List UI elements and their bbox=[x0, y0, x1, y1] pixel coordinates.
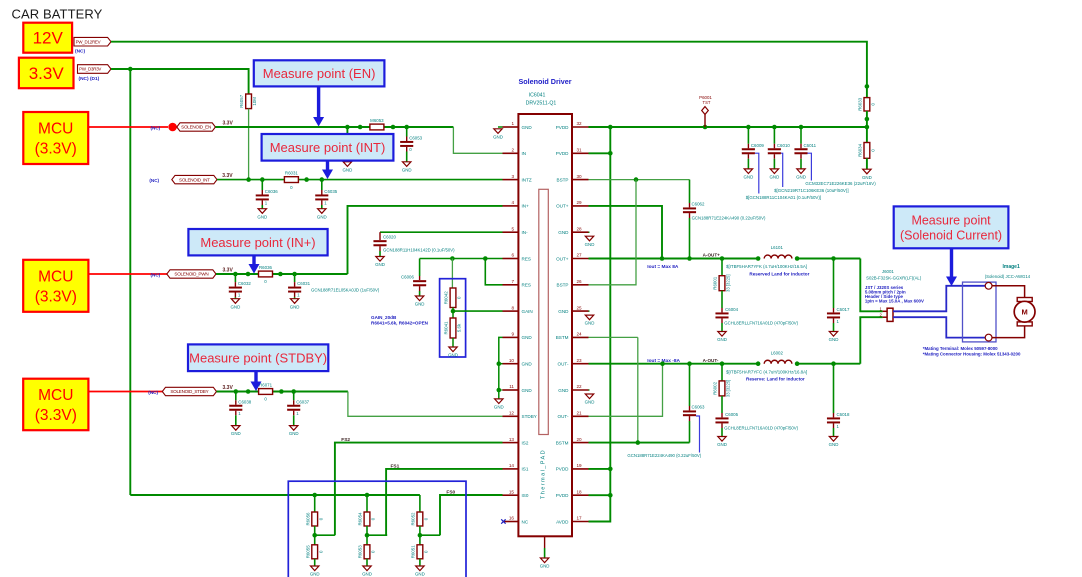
junction 3.3V rail at R6054 bbox=[365, 493, 370, 512]
refdes J6001 bbox=[882, 269, 895, 274]
svg-text:(NC) (D1): (NC) (D1) bbox=[79, 76, 100, 82]
svg-text:GND: GND bbox=[744, 175, 754, 180]
ground below C6006 bbox=[415, 296, 425, 307]
wire FS2 net bbox=[335, 443, 503, 536]
svg-text:DRV2511-Q1: DRV2511-Q1 bbox=[526, 101, 557, 107]
wire R6051 to ground bbox=[419, 559, 421, 566]
svg-text:Thermal_PAD: Thermal_PAD bbox=[540, 449, 546, 499]
wire R6042 to R6041 bbox=[452, 308, 454, 319]
svg-text:3.3V: 3.3V bbox=[223, 268, 234, 274]
wire STDBY line bbox=[217, 391, 348, 393]
wire R6054 to R6053 bbox=[366, 526, 368, 545]
svg-text:SOLENOID_EN: SOLENOID_EN bbox=[181, 125, 211, 130]
note reserved land top bbox=[749, 271, 809, 276]
capacitor C6031 bbox=[288, 274, 310, 309]
svg-text:GND: GND bbox=[717, 442, 727, 447]
svg-text:GND: GND bbox=[585, 321, 595, 326]
wire 3.3V rail bottom horizontal bbox=[130, 494, 420, 496]
ground pin25 bbox=[585, 311, 595, 326]
value C6009 bbox=[746, 195, 821, 200]
svg-text:33 [3225]: 33 [3225] bbox=[726, 274, 731, 291]
svg-text:12: 12 bbox=[509, 411, 515, 416]
callout line C6063 bbox=[696, 416, 700, 453]
junction FS tap at R6052 bbox=[418, 533, 423, 538]
svg-text:C6053: C6053 bbox=[409, 136, 422, 141]
svg-text:C6038: C6038 bbox=[238, 399, 251, 404]
wire R6053 to ground bbox=[366, 559, 368, 566]
svg-text:3.3V: 3.3V bbox=[223, 121, 234, 127]
capacitor C6006 bbox=[401, 275, 426, 297]
svg-text:C6036: C6036 bbox=[265, 189, 278, 194]
block 12V battery bbox=[23, 23, 72, 53]
svg-text:GCN188R11H104K142D (0.1uF/50V): GCN188R11H104K142D (0.1uF/50V) bbox=[383, 248, 455, 253]
thermal pad rect bbox=[539, 189, 549, 434]
callout Measure point (Solenoid Current) bbox=[894, 206, 1009, 248]
note mating terminal bbox=[923, 346, 1021, 357]
note reserved land bottom bbox=[746, 377, 805, 382]
svg-text:(Solenoid Current): (Solenoid Current) bbox=[900, 228, 1002, 242]
svg-text:33 [3225]: 33 [3225] bbox=[726, 380, 731, 397]
wire A-OUT+ to connector bbox=[860, 259, 882, 312]
junction EN dot d bbox=[404, 125, 409, 130]
part number DRV2511-Q1 bbox=[526, 101, 557, 107]
ground below R6053 bbox=[362, 566, 372, 577]
svg-text:R6042: R6042 bbox=[444, 291, 449, 304]
pin 25 GND (right) bbox=[558, 305, 588, 314]
svg-text:32: 32 bbox=[577, 121, 583, 126]
net flag SOLENOID_PWN bbox=[167, 270, 216, 278]
svg-text:A-OUT+: A-OUT+ bbox=[703, 253, 721, 258]
svg-text:R6036: R6036 bbox=[259, 265, 272, 270]
wire A-OUT- line bbox=[589, 363, 759, 365]
resistor R6051 bbox=[411, 545, 429, 559]
svg-text:SOLENOID_INT: SOLENOID_INT bbox=[179, 177, 210, 182]
junction PWN dot C6032 bbox=[233, 272, 238, 277]
junction pin11 dot bbox=[497, 388, 502, 393]
svg-text:C6063: C6063 bbox=[692, 405, 705, 410]
svg-text:R6041: R6041 bbox=[444, 321, 449, 334]
label (NC) INT bbox=[149, 178, 159, 183]
svg-text:GND: GND bbox=[717, 337, 727, 342]
svg-text:31: 31 bbox=[577, 148, 583, 153]
svg-text:R6041=5.6k, R6042=OPEN: R6041=5.6k, R6042=OPEN bbox=[371, 321, 429, 326]
wire MCU2 to PWN testpoint bbox=[88, 273, 168, 275]
ground below C6005 bbox=[717, 437, 727, 448]
capacitor C6020 bbox=[374, 232, 456, 256]
ground EN stub bbox=[343, 162, 353, 173]
callout Measure point (STDBY) bbox=[188, 344, 328, 371]
ground below R6055 bbox=[310, 566, 320, 577]
svg-text:M: M bbox=[1021, 308, 1027, 317]
callout Measure point (INT) bbox=[262, 134, 394, 161]
wire pin18 PVDD bbox=[589, 494, 611, 496]
block MCU1 (3.3V) bbox=[23, 112, 88, 164]
junction STDBY dot C6037 bbox=[291, 389, 296, 394]
ground below R6034 bbox=[862, 169, 872, 180]
svg-text:SOLENOID_PWN: SOLENOID_PWN bbox=[174, 272, 208, 277]
resistor R6054 bbox=[358, 512, 376, 526]
wire pin30 BSTP bbox=[589, 179, 690, 181]
pin 3 INTZ (left) bbox=[503, 174, 532, 183]
svg-text:(NC): (NC) bbox=[151, 273, 161, 278]
wire BSTP to pin26 bbox=[589, 180, 637, 285]
svg-text:(NC): (NC) bbox=[151, 126, 161, 131]
svg-text:Iout = Max 8A: Iout = Max 8A bbox=[647, 264, 679, 270]
svg-text:18: 18 bbox=[577, 489, 583, 494]
ground pins 9-11 bbox=[494, 399, 504, 410]
svg-text:21: 21 bbox=[577, 411, 583, 416]
svg-text:PVDD: PVDD bbox=[556, 467, 569, 472]
svg-text:3.3V: 3.3V bbox=[29, 64, 65, 83]
svg-text:C6011: C6011 bbox=[804, 143, 817, 148]
svg-text:(3.3V): (3.3V) bbox=[35, 141, 77, 158]
svg-text:GCHL8ERLLFN716A01D (470pF/50V): GCHL8ERLLFN716A01D (470pF/50V) bbox=[724, 321, 798, 326]
svg-text:FS0: FS0 bbox=[446, 489, 455, 495]
block FS select box bbox=[288, 481, 466, 577]
wire INT line bbox=[217, 179, 503, 181]
arrow measure solenoid current bbox=[946, 248, 957, 286]
svg-text:GND: GND bbox=[558, 388, 569, 393]
wire PWN to pin4 IN+ bbox=[348, 206, 503, 274]
callout line C6011 bbox=[808, 153, 812, 180]
resistor R6056 bbox=[305, 512, 323, 526]
label (NC) STDBY bbox=[148, 390, 158, 395]
svg-text:IC6041: IC6041 bbox=[529, 93, 546, 99]
block gain select box bbox=[440, 279, 466, 357]
connector J6001 body bbox=[887, 308, 893, 321]
svg-text:C6031: C6031 bbox=[297, 281, 310, 286]
wire BSTM vertical bbox=[637, 337, 639, 442]
svg-text:Image1: Image1 bbox=[1003, 264, 1020, 270]
pin 9 GND (left) bbox=[503, 332, 533, 341]
wire R6002 to C6005 bbox=[721, 396, 723, 413]
svg-text:$[ITBF5HAR7YFK (4.7uH/100KHz/1: $[ITBF5HAR7YFK (4.7uH/100KHz/16.5A] bbox=[726, 264, 807, 269]
svg-text:C6006: C6006 bbox=[401, 275, 414, 280]
junction INT dot c bbox=[304, 177, 309, 182]
wire FS tap R6056 bbox=[315, 534, 335, 536]
svg-text:PVDD: PVDD bbox=[556, 493, 569, 498]
capacitor C6053 bbox=[400, 127, 422, 172]
svg-text:MCU: MCU bbox=[38, 268, 73, 285]
svg-text:Measure point (STDBY): Measure point (STDBY) bbox=[189, 350, 327, 365]
svg-text:M6053: M6053 bbox=[370, 118, 384, 123]
label (NC) (D1) bbox=[79, 76, 100, 82]
pin 5 IN- (left) bbox=[503, 226, 529, 235]
terminal solenoid top bbox=[985, 282, 992, 289]
svg-text:GCHL8ERLLFN716A01D (470pF/50V): GCHL8ERLLFN716A01D (470pF/50V) bbox=[724, 426, 798, 431]
resistor R6002 bbox=[713, 380, 731, 397]
svg-text:GND: GND bbox=[343, 167, 353, 172]
wire A-OUT+ line right bbox=[797, 258, 860, 260]
junction PVDD bus x705 bbox=[703, 125, 708, 130]
svg-text:(3.3V): (3.3V) bbox=[35, 407, 77, 424]
pin 12 STDBY (left) bbox=[503, 411, 537, 420]
svg-text:26: 26 bbox=[577, 279, 583, 284]
svg-text:(3.3V): (3.3V) bbox=[35, 288, 77, 305]
svg-text:GAIN_20dB: GAIN_20dB bbox=[371, 315, 397, 320]
wire IN- line to pin5 bbox=[380, 231, 503, 233]
value C6006 bbox=[311, 287, 380, 292]
wire solenoid pin1 blue bbox=[893, 286, 985, 312]
title Solenoid Driver bbox=[518, 77, 571, 86]
wire thermal pad ground bbox=[544, 536, 546, 558]
wire MCU3 to STDBY testpoint bbox=[88, 391, 168, 393]
svg-text:22: 22 bbox=[577, 384, 583, 389]
wire A-OUT- line right bbox=[797, 363, 860, 365]
svg-text:OUT-: OUT- bbox=[558, 362, 569, 367]
junction PVDD bus right bbox=[865, 125, 870, 130]
svg-text:19: 19 bbox=[577, 463, 583, 468]
svg-text:GCN188R71E224KA490 (0.22uF/50V: GCN188R71E224KA490 (0.22uF/50V) bbox=[627, 453, 701, 458]
junction INT dot C6035 bbox=[320, 177, 325, 182]
junction 3.3V rail at R6056 bbox=[312, 493, 317, 512]
ground below R6051 bbox=[415, 566, 425, 577]
block MCU3 (3.3V) bbox=[23, 379, 88, 431]
junction 3.3V rail at R6052 bbox=[419, 495, 421, 512]
wire PVDD vertical bbox=[589, 127, 611, 522]
resistor R6071 bbox=[259, 383, 273, 402]
svg-text:Measure point (EN): Measure point (EN) bbox=[263, 66, 376, 81]
svg-text:3: 3 bbox=[511, 174, 514, 179]
svg-text:R6071: R6071 bbox=[259, 383, 272, 388]
svg-text:Solenoid Driver: Solenoid Driver bbox=[518, 77, 571, 86]
wire FS tap R6052 bbox=[420, 534, 440, 536]
pin 16 NC (left) bbox=[503, 516, 529, 525]
svg-text:20: 20 bbox=[577, 437, 583, 442]
junction STDBY dot c bbox=[279, 389, 284, 394]
junction PVDD bus x610 bbox=[608, 125, 613, 130]
refdes IC6041 bbox=[529, 93, 546, 99]
block MCU2 (3.3V) bbox=[23, 260, 88, 312]
svg-text:12V: 12V bbox=[33, 29, 64, 48]
svg-text:MCU: MCU bbox=[38, 387, 73, 404]
svg-text:GND: GND bbox=[585, 242, 595, 247]
svg-text:28: 28 bbox=[577, 226, 583, 231]
capacitor C6035 bbox=[315, 180, 337, 220]
wire A-OUT- to R6002 bbox=[721, 364, 723, 381]
capacitor C6011 bbox=[795, 127, 817, 180]
pin 14 IS1 (left) bbox=[503, 463, 529, 472]
svg-text:IN+: IN+ bbox=[522, 204, 530, 209]
svg-text:GND: GND bbox=[290, 304, 300, 309]
svg-text:OUT+: OUT+ bbox=[556, 256, 569, 261]
ground below C6020 bbox=[375, 257, 385, 268]
svg-text:IN-: IN- bbox=[522, 230, 529, 235]
wire FS1 net bbox=[386, 469, 502, 535]
svg-text:GND: GND bbox=[402, 167, 412, 172]
terminal solenoid bottom bbox=[985, 334, 992, 341]
value C6004 bbox=[724, 321, 798, 326]
ground below C6017 bbox=[829, 332, 839, 343]
junction L6101 right bbox=[795, 256, 800, 261]
capacitor C6017 bbox=[827, 259, 850, 332]
wire R6033 to bus bbox=[866, 111, 868, 143]
resistor R6053 bbox=[358, 545, 376, 559]
svg-text:GND: GND bbox=[362, 572, 372, 577]
block solenoid outline bbox=[963, 282, 997, 342]
svg-text:Reserve: Land for Inductor: Reserve: Land for Inductor bbox=[746, 377, 805, 382]
svg-text:13: 13 bbox=[509, 437, 515, 442]
resistor R6036 bbox=[259, 265, 273, 284]
junction pin6 dot pin7 bbox=[483, 256, 488, 261]
wire R6034 to ground bbox=[866, 158, 868, 169]
pin 19 PVDD (right) bbox=[556, 463, 589, 472]
wire PVDD top bus bbox=[589, 126, 867, 128]
wire FS tap R6054 bbox=[367, 534, 387, 536]
svg-text:C6018: C6018 bbox=[837, 412, 850, 417]
resistor R6042 bbox=[444, 288, 462, 308]
svg-text:L6002: L6002 bbox=[771, 351, 784, 356]
arrow measure STDBY bbox=[251, 371, 262, 391]
svg-text:R6053: R6053 bbox=[358, 545, 363, 558]
svg-text:7: 7 bbox=[511, 279, 514, 284]
junction A-OUT+ C6062 bbox=[687, 256, 692, 261]
svg-text:29: 29 bbox=[577, 200, 583, 205]
svg-text:27: 27 bbox=[577, 253, 583, 258]
svg-text:R6002: R6002 bbox=[713, 381, 718, 394]
svg-text:GCN188R71EL05KA0JD (1uF/50V): GCN188R71EL05KA0JD (1uF/50V) bbox=[311, 287, 380, 292]
resistor R6055 bbox=[305, 545, 323, 559]
junction gain tap dot bbox=[451, 309, 456, 314]
junction L6002 right bbox=[795, 361, 800, 366]
svg-text:BSTP: BSTP bbox=[557, 177, 569, 182]
capacitor C6036 bbox=[256, 180, 278, 220]
svg-text:MCU: MCU bbox=[38, 121, 73, 138]
svg-text:R6056: R6056 bbox=[305, 512, 310, 525]
svg-text:*Mating Terminal: Molex 50597-: *Mating Terminal: Molex 50597-8000 bbox=[923, 346, 998, 351]
wire EN jog to pin2 bbox=[453, 127, 502, 153]
svg-text:6: 6 bbox=[511, 253, 514, 258]
junction INT dot C6036 bbox=[260, 177, 265, 182]
svg-text:30: 30 bbox=[577, 174, 583, 179]
net flag PW_D3R3V bbox=[78, 65, 112, 74]
svg-text:5.6k: 5.6k bbox=[457, 323, 462, 332]
svg-text:GND: GND bbox=[558, 309, 569, 314]
pin 30 BSTP (right) bbox=[557, 174, 589, 183]
note Iout max bbox=[647, 264, 679, 270]
note gain setting bbox=[371, 315, 429, 326]
junction INT dot R6057 bbox=[246, 177, 251, 182]
svg-text:17: 17 bbox=[577, 516, 583, 521]
svg-text:C6035: C6035 bbox=[324, 189, 337, 194]
pin 20 BSTM (right) bbox=[556, 437, 589, 446]
testpoint PWN red dot bbox=[168, 270, 177, 279]
svg-text:C6020: C6020 bbox=[383, 235, 396, 240]
junction STDBY dot b bbox=[246, 389, 251, 394]
pin 23 OUT- (right) bbox=[558, 358, 589, 367]
svg-text:A-OUT-: A-OUT- bbox=[703, 358, 719, 363]
svg-text:GND: GND bbox=[289, 431, 299, 436]
svg-text:GND: GND bbox=[585, 400, 595, 405]
svg-text:$[GCN219R71C106KE36 (10uF/50V): $[GCN219R71C106KE36 (10uF/50V)] bbox=[774, 188, 848, 193]
ground pin22 bbox=[585, 390, 595, 405]
svg-text:J6001: J6001 bbox=[882, 269, 895, 274]
motor M1 solenoid coil bbox=[1014, 298, 1035, 326]
wire pin21 drop bbox=[589, 364, 663, 417]
svg-text:GND: GND bbox=[493, 134, 503, 139]
junction A-OUT+ C6017 bbox=[831, 256, 836, 261]
wire 3.3V flag to R6057 bbox=[111, 69, 249, 94]
value L6002 bbox=[726, 369, 807, 374]
junction A-OUT- C6063 bbox=[687, 361, 692, 366]
resistor M6053 bbox=[370, 118, 384, 137]
svg-text:L6101: L6101 bbox=[771, 245, 784, 250]
wire motor bottom bbox=[992, 326, 1025, 338]
svg-text:3.3V: 3.3V bbox=[222, 173, 233, 179]
svg-text:R6034: R6034 bbox=[858, 143, 863, 156]
pin 29 OUT+ (right) bbox=[556, 200, 588, 209]
svg-text:R6057: R6057 bbox=[239, 94, 244, 107]
net flag SOLENOID_STDBY bbox=[162, 387, 216, 395]
junction pin18 dot bbox=[608, 493, 613, 498]
svg-text:R6001: R6001 bbox=[713, 276, 718, 289]
svg-text:*Mating Connector Housing: Mol: *Mating Connector Housing: Molex 51343-0… bbox=[923, 351, 1021, 356]
svg-text:3.3V: 3.3V bbox=[223, 385, 234, 391]
note Iout min bbox=[647, 358, 680, 364]
svg-text:9: 9 bbox=[511, 332, 514, 337]
svg-text:IS0: IS0 bbox=[522, 493, 529, 498]
callout line C6009 bbox=[755, 153, 759, 193]
wire FS0 net bbox=[440, 495, 503, 535]
svg-text:Reserved Land for Inductor: Reserved Land for Inductor bbox=[749, 271, 809, 276]
wire A-OUT+ to R6001 bbox=[721, 259, 723, 276]
label (NC) on PW_D12REV bbox=[75, 49, 86, 55]
svg-text:IS1: IS1 bbox=[522, 467, 529, 472]
svg-text:C6037: C6037 bbox=[296, 399, 309, 404]
wire PWN line bbox=[216, 273, 348, 275]
capacitor C6037 bbox=[287, 392, 309, 437]
pin 10 GND (left) bbox=[503, 358, 533, 367]
junction BSTP dot bbox=[634, 177, 639, 182]
wire pin24 BSTM bbox=[589, 336, 638, 338]
junction EN dot b bbox=[358, 125, 363, 130]
capacitor C6038 bbox=[229, 392, 251, 437]
svg-text:GAIN: GAIN bbox=[522, 309, 533, 314]
svg-text:PVDD: PVDD bbox=[556, 125, 569, 130]
wire EN line bbox=[215, 126, 453, 128]
svg-text:(Solenoid) JCC-AWG14: (Solenoid) JCC-AWG14 bbox=[985, 274, 1031, 279]
svg-text:GND: GND bbox=[494, 405, 504, 410]
svg-text:R6051: R6051 bbox=[411, 545, 416, 558]
svg-text:INTZ: INTZ bbox=[522, 177, 532, 182]
svg-text:GND: GND bbox=[317, 214, 327, 219]
label 3.3V on EN bbox=[223, 121, 234, 127]
pin 32 PVDD (right) bbox=[556, 121, 589, 130]
resistor R6052 bbox=[411, 512, 429, 526]
svg-text:BSTP: BSTP bbox=[557, 283, 569, 288]
label FS2 bbox=[341, 437, 350, 443]
svg-text:(NC): (NC) bbox=[75, 49, 86, 55]
junction pin10 dot bbox=[497, 361, 502, 366]
junction STDBY dot C6038 bbox=[234, 389, 239, 394]
wire R6056 to R6055 bbox=[314, 526, 316, 545]
svg-text:RES: RES bbox=[522, 283, 531, 288]
svg-text:5: 5 bbox=[511, 226, 514, 231]
junction A-OUT- C6018 bbox=[831, 361, 836, 366]
junction PVDD bus x801 bbox=[799, 125, 804, 130]
pin 2 IN (left) bbox=[503, 148, 527, 157]
svg-text:C6062: C6062 bbox=[692, 202, 705, 207]
svg-text:GND: GND bbox=[558, 230, 569, 235]
svg-text:2: 2 bbox=[511, 148, 514, 153]
svg-text:1: 1 bbox=[511, 121, 514, 126]
svg-text:23: 23 bbox=[577, 358, 583, 363]
svg-text:RES: RES bbox=[522, 256, 531, 261]
wire A-OUT+ line bbox=[589, 258, 759, 260]
pin 15 IS0 (left) bbox=[503, 489, 529, 498]
inductor L6002 bbox=[764, 351, 792, 364]
note JST series bbox=[865, 285, 924, 304]
